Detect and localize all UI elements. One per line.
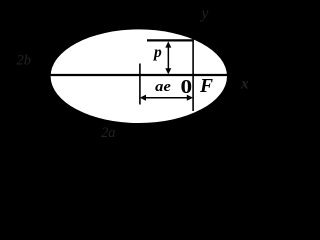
svg-text:p: p — [152, 44, 162, 61]
svg-text:F: F — [199, 76, 213, 97]
x-axis — [49, 74, 252, 76]
ae arrow — [140, 95, 193, 101]
p arrow — [165, 41, 171, 74]
svg-text:ae: ae — [155, 79, 171, 95]
svg-text:2b: 2b — [17, 52, 32, 68]
latus rectum chord — [147, 39, 194, 41]
svg-text:2a: 2a — [101, 125, 116, 141]
y-axis — [192, 12, 194, 111]
ellipse body — [51, 29, 227, 123]
svg-text:0: 0 — [181, 76, 193, 98]
center tick — [139, 64, 141, 105]
svg-text:x: x — [240, 75, 249, 92]
svg-text:y: y — [200, 5, 209, 22]
